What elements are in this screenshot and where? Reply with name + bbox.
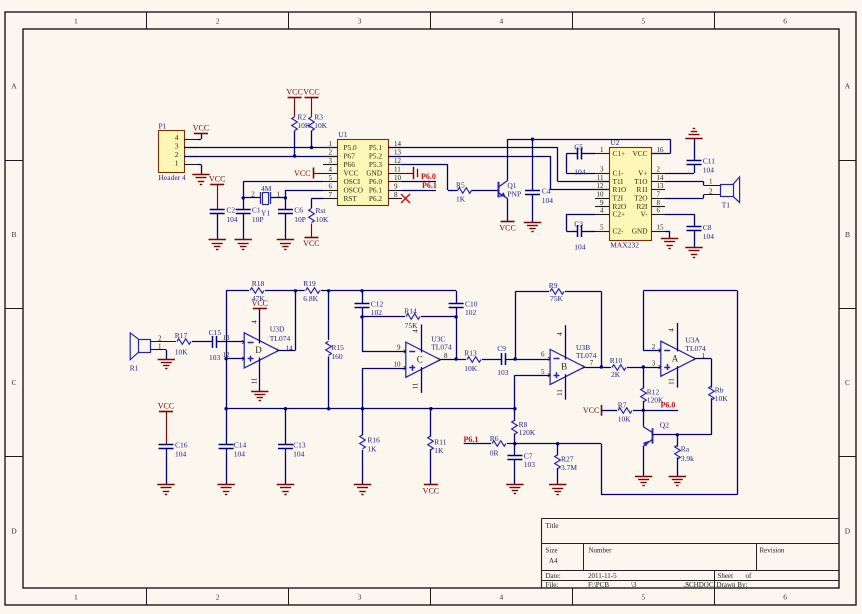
svg-text:1: 1 [709,178,713,186]
svg-text:6: 6 [657,207,661,215]
svg-text:PNP: PNP [507,190,521,199]
svg-text:3: 3 [652,360,656,368]
svg-text:104: 104 [574,168,586,177]
svg-text:4M: 4M [261,184,272,193]
svg-text:2: 2 [657,166,661,174]
svg-text:104: 104 [293,450,305,459]
svg-text:C8: C8 [703,223,712,232]
svg-text:VCC: VCC [294,169,310,178]
svg-text:P1: P1 [159,122,167,131]
svg-text:6: 6 [541,351,545,359]
svg-text:11: 11 [556,389,564,396]
svg-text:3.9k: 3.9k [681,454,694,463]
svg-text:3: 3 [329,157,333,165]
svg-text:3: 3 [358,17,362,26]
svg-text:VCC: VCC [193,124,209,133]
svg-text:C11: C11 [703,157,715,166]
svg-text:15: 15 [657,224,665,232]
svg-text:75K: 75K [550,294,564,303]
svg-text:P6.0: P6.0 [421,172,436,181]
svg-text:5: 5 [600,224,604,232]
svg-text:16: 16 [657,146,665,154]
svg-text:C7: C7 [524,451,533,460]
svg-text:R10: R10 [610,356,623,365]
svg-text:2: 2 [329,149,333,157]
svg-text:1K: 1K [434,446,444,455]
svg-text:11: 11 [668,378,676,385]
svg-text:47K: 47K [252,294,265,303]
svg-text:10P: 10P [294,215,306,224]
svg-text:TL074: TL074 [431,342,452,351]
svg-text:C: C [11,378,16,387]
svg-text:6: 6 [329,183,333,191]
svg-text:MAX232: MAX232 [610,241,639,250]
svg-text:3.7M: 3.7M [561,463,577,472]
svg-text:1: 1 [74,593,78,602]
svg-text:5: 5 [641,17,645,26]
svg-text:102: 102 [465,308,477,317]
svg-text:1K: 1K [367,444,377,453]
svg-text:R5: R5 [456,180,465,189]
svg-text:7: 7 [329,191,333,199]
svg-text:R19: R19 [303,279,316,288]
svg-text:103: 103 [524,460,536,469]
svg-text:4: 4 [668,328,676,332]
svg-text:C1: C1 [252,205,261,214]
svg-text:3: 3 [358,593,362,602]
svg-text:1: 1 [600,146,604,154]
svg-text:12: 12 [597,182,605,190]
svg-text:14: 14 [394,140,402,148]
svg-text:8: 8 [394,191,398,199]
svg-text:C9: C9 [497,344,506,353]
svg-text:4: 4 [556,332,564,336]
svg-text:1K: 1K [456,195,466,204]
svg-text:7: 7 [657,191,661,199]
svg-text:11: 11 [394,166,401,174]
svg-text:104: 104 [574,242,586,251]
svg-text:1: 1 [277,190,281,198]
svg-text:104: 104 [703,165,715,174]
svg-text:104: 104 [226,215,238,224]
svg-text:R7: R7 [618,400,627,409]
svg-text:9: 9 [394,183,398,191]
svg-text:14: 14 [657,174,665,182]
svg-text:VCC: VCC [423,486,439,495]
svg-text:4: 4 [600,207,604,215]
svg-text:Rb: Rb [715,385,724,394]
svg-text:6: 6 [783,593,787,602]
svg-text:10K: 10K [316,215,330,224]
svg-text:C16: C16 [175,441,188,450]
svg-text:D: D [255,345,262,355]
svg-text:Date:: Date: [546,572,561,580]
svg-text:104: 104 [703,232,715,241]
svg-text:C15: C15 [209,328,222,337]
svg-text:14: 14 [286,345,294,353]
svg-text:2: 2 [251,190,255,198]
svg-text:10K: 10K [175,347,189,356]
svg-text:U1: U1 [338,130,347,139]
svg-text:2: 2 [216,593,220,602]
svg-text:102: 102 [371,308,383,317]
svg-text:R16: R16 [367,436,380,445]
svg-text:7: 7 [590,359,594,367]
svg-text:Revision: Revision [760,547,785,555]
svg-text:104: 104 [542,196,554,205]
svg-text:8: 8 [444,352,448,360]
svg-text:10: 10 [394,360,402,368]
svg-text:11: 11 [412,382,420,389]
svg-text:A: A [11,82,17,91]
svg-text:4: 4 [412,329,420,333]
svg-text:Sheet: Sheet [718,572,734,580]
svg-text:TL074: TL074 [270,334,291,343]
svg-text:2: 2 [216,17,220,26]
svg-text:9: 9 [397,344,401,352]
svg-text:12: 12 [394,157,402,165]
svg-text:P6.2: P6.2 [369,194,383,203]
svg-text:GND: GND [632,227,648,236]
svg-text:C2-: C2- [613,227,625,236]
svg-text:VCC: VCC [158,401,174,410]
svg-text:C13: C13 [293,441,306,450]
svg-text:75K: 75K [405,321,419,330]
svg-text:10K: 10K [314,121,328,130]
svg-text:103: 103 [497,368,509,377]
svg-text:2011-11-5: 2011-11-5 [588,572,617,580]
svg-text:Header 4: Header 4 [159,173,187,182]
svg-text:R6: R6 [490,434,499,443]
svg-text:11: 11 [597,174,604,182]
svg-text:R14: R14 [404,307,417,316]
svg-text:Number: Number [589,547,613,555]
svg-text:B: B [561,362,567,372]
svg-text:R13: R13 [464,349,477,358]
svg-text:C: C [845,378,850,387]
svg-text:B: B [845,230,850,239]
svg-text:U2: U2 [610,138,619,147]
svg-text:D: D [845,526,851,535]
svg-text:10: 10 [597,191,605,199]
svg-text:Title: Title [546,522,559,530]
svg-text:.SCHDOC: .SCHDOC [683,581,713,589]
svg-text:R1: R1 [130,363,139,372]
svg-text:R9: R9 [549,281,558,290]
svg-text:Q2: Q2 [660,421,669,430]
svg-text:P6.1: P6.1 [464,435,479,444]
svg-text:VCC: VCC [303,88,319,97]
svg-text:120K: 120K [519,428,536,437]
svg-text:VCC: VCC [303,239,319,248]
svg-text:of: of [746,572,753,580]
svg-text:TL074: TL074 [576,351,597,360]
svg-text:4: 4 [500,17,504,26]
svg-text:C14: C14 [234,441,247,450]
svg-text:4: 4 [251,320,259,324]
svg-text:13: 13 [657,182,665,190]
svg-text:10K: 10K [715,394,729,403]
svg-text:Size: Size [546,547,558,555]
svg-text:A4: A4 [549,557,558,565]
svg-text:4: 4 [500,593,504,602]
svg-text:VCC: VCC [499,223,515,232]
svg-text:3: 3 [600,166,604,174]
svg-text:T1: T1 [722,200,731,209]
svg-text:\3: \3 [631,581,637,589]
svg-text:VCC: VCC [583,406,599,415]
svg-text:2K: 2K [611,370,621,379]
svg-text:V-: V- [640,210,648,219]
svg-text:160: 160 [331,352,343,361]
svg-text:C2: C2 [226,205,235,214]
svg-text:VCC: VCC [286,88,302,97]
svg-text:5: 5 [541,368,545,376]
svg-text:RST: RST [344,194,358,203]
svg-text:F:\PCB: F:\PCB [588,581,609,589]
svg-text:R18: R18 [252,279,265,288]
svg-text:C: C [417,354,423,364]
svg-text:1: 1 [74,17,78,26]
svg-text:10: 10 [394,174,402,182]
svg-text:D: D [11,526,17,535]
svg-text:6.8K: 6.8K [303,294,318,303]
svg-text:P6.1: P6.1 [422,181,437,190]
svg-text:VCC: VCC [209,175,225,184]
svg-text:2: 2 [709,187,713,195]
svg-text:13: 13 [394,149,402,157]
svg-text:2: 2 [652,343,656,351]
svg-text:C3: C3 [574,219,583,228]
svg-text:B: B [11,230,16,239]
svg-text:5: 5 [641,593,645,602]
svg-text:104: 104 [234,450,246,459]
svg-text:File:: File: [546,581,559,589]
svg-text:R17: R17 [175,331,188,340]
svg-text:10K: 10K [297,121,311,130]
svg-text:103: 103 [209,353,221,362]
svg-text:Drawn By:: Drawn By: [717,581,748,589]
svg-text:VCC: VCC [632,149,647,158]
svg-text:U3D: U3D [270,325,285,334]
svg-text:A: A [672,353,679,363]
svg-text:6: 6 [783,17,787,26]
svg-text:11: 11 [251,377,259,384]
svg-text:0R: 0R [490,448,499,457]
svg-text:C4: C4 [542,187,551,196]
svg-text:104: 104 [175,450,187,459]
svg-text:P6.0: P6.0 [661,400,676,409]
svg-text:10K: 10K [618,415,632,424]
svg-text:C5: C5 [574,142,583,151]
svg-text:1: 1 [175,159,179,168]
svg-text:10P: 10P [252,215,264,224]
svg-text:1: 1 [329,140,333,148]
svg-text:Ra: Ra [681,445,690,454]
svg-text:4: 4 [329,166,333,174]
svg-text:C2+: C2+ [613,210,626,219]
svg-text:C6: C6 [294,205,303,214]
svg-text:R11: R11 [434,437,446,446]
svg-text:10K: 10K [464,364,478,373]
svg-text:A: A [845,82,851,91]
svg-text:5: 5 [329,174,333,182]
svg-text:C1+: C1+ [613,149,626,158]
